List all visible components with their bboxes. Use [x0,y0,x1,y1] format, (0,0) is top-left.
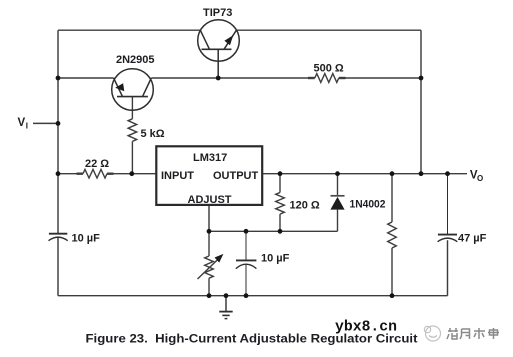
transistor Q1 2N2905 [112,69,154,111]
svg-text:5 kΩ: 5 kΩ [141,128,165,140]
svg-text:Figure 23. High-Current Adjus: Figure 23. High-Current Adjustable Regul… [86,332,418,346]
node gnd stub [224,293,229,298]
wire bottom rail [58,240,448,296]
wire output [262,173,467,175]
node gnd rheostat [207,293,212,298]
svg-text:ADJUST: ADJUST [188,194,232,206]
svg-text:2N2905: 2N2905 [116,54,155,66]
node adj cap [244,229,249,234]
diode D1 1N4002 [330,174,344,232]
svg-text:INPUT: INPUT [161,170,194,182]
label chinese watermark [447,328,499,339]
svg-text:1N4002: 1N4002 [350,199,386,211]
svg-text:10 µF: 10 µF [261,253,290,265]
node junctions [56,76,450,299]
resistor R output [388,174,397,296]
node adj 120 [278,229,283,234]
svg-text:LM317: LM317 [193,152,227,164]
node input left [56,171,61,176]
resistor R 120ohm [276,174,285,232]
node adj pin [207,229,212,234]
node 5k input [129,171,134,176]
svg-text:O: O [477,174,483,183]
IC U1 LM317 [156,146,262,205]
svg-text:22 Ω: 22 Ω [85,158,109,170]
wire adjust rail [209,205,338,231]
wire right upper rail [420,30,422,174]
ground [219,296,232,319]
logo stamp [424,326,440,341]
resistor R 5k [128,97,137,174]
node out 120 [278,171,283,176]
wire second rail [58,77,421,79]
rheostat R adjust [198,231,219,295]
transistor Q2 TIP73 [198,20,240,78]
node TIP73 base [216,76,221,81]
wire left rail [57,30,59,296]
svg-text:V: V [18,117,26,129]
svg-text:500 Ω: 500 Ω [314,63,344,75]
capacitor C3 47uF [438,174,458,242]
svg-text:I: I [26,122,28,131]
resistor R 500ohm [308,74,346,83]
node out rail [419,171,424,176]
capacitor C1 10uF input [49,234,68,241]
node gnd res [390,293,395,298]
node out diode [335,171,340,176]
label VI [18,117,28,131]
node out cap [445,171,450,176]
node vin top [56,76,61,81]
svg-text:120 Ω: 120 Ω [290,200,320,212]
svg-text:OUTPUT: OUTPUT [213,170,259,182]
wire VI lead [33,122,58,124]
node gnd cap [244,293,249,298]
wire input [58,173,156,175]
svg-text:10 µF: 10 µF [72,233,101,245]
svg-text:47 µF: 47 µF [458,233,487,245]
node out res [390,171,395,176]
svg-text:TIP73: TIP73 [203,7,232,19]
node right rail 500 [419,76,424,81]
node VI [56,121,61,126]
resistor R 22ohm [77,169,114,178]
capacitor C2 10uF adjust [236,231,257,295]
label VO [470,170,483,184]
wire top rail [58,29,421,31]
